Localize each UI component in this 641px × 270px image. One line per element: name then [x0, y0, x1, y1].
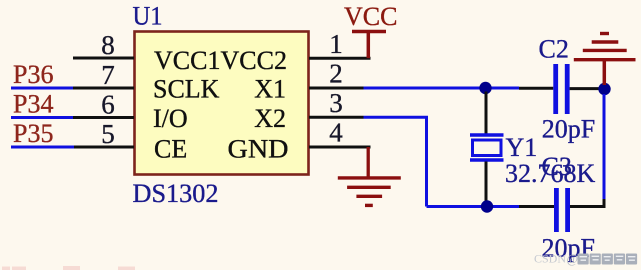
svg-text:X2: X2 — [254, 104, 286, 133]
wire net P35 — [11, 146, 74, 149]
svg-text:CE: CE — [154, 135, 187, 164]
capacitor C2 right plate — [565, 64, 570, 114]
svg-text:2: 2 — [329, 59, 343, 89]
svg-text:C3: C3 — [542, 152, 572, 181]
svg-text:8: 8 — [101, 30, 115, 60]
VCC power bar — [352, 30, 386, 33]
svg-text:5: 5 — [101, 119, 115, 149]
node junction X1/Y1/C2 — [479, 82, 491, 94]
pin 1 stub — [309, 57, 371, 60]
pin 4 stub — [309, 146, 371, 149]
crystal Y1 bottom stub — [485, 162, 488, 204]
watermark handle blobs — [578, 254, 638, 265]
inverted ground symbol top right — [574, 34, 636, 60]
svg-text:4: 4 — [329, 118, 343, 148]
svg-text:7: 7 — [101, 60, 115, 90]
svg-text:20pF: 20pF — [542, 114, 595, 143]
chip U1 body — [135, 32, 309, 175]
node junction C2/ground — [598, 83, 610, 95]
pin 7 stub — [73, 87, 134, 90]
pin 8 stub — [73, 57, 134, 60]
svg-text:CSDN: CSDN — [534, 251, 566, 265]
svg-text:U1: U1 — [133, 2, 163, 31]
svg-text:3: 3 — [329, 88, 343, 118]
wire from C2 junction down to C3 — [603, 94, 606, 200]
svg-text:P36: P36 — [13, 60, 53, 89]
leftover red text cut at bottom left — [2, 266, 135, 270]
svg-text:P34: P34 — [13, 90, 53, 119]
crystal Y1 top stub — [485, 92, 488, 136]
svg-text:X1: X1 — [254, 75, 286, 104]
svg-text:@: @ — [567, 252, 579, 266]
node junction Y1 bottom — [481, 200, 493, 212]
crystal Y1 top plate — [470, 133, 504, 136]
svg-text:DS1302: DS1302 — [133, 179, 219, 208]
capacitor C3 left plate — [554, 188, 559, 232]
svg-text:I/O: I/O — [153, 104, 188, 133]
svg-text:C2: C2 — [539, 35, 569, 64]
svg-text:VCC2: VCC2 — [221, 46, 287, 75]
svg-text:1: 1 — [329, 29, 343, 59]
svg-text:VCC1: VCC1 — [154, 46, 220, 75]
GND stem wire — [367, 147, 370, 178]
wire X1 net to junction — [364, 87, 485, 90]
wire X2 bottom run — [427, 205, 520, 208]
capacitor C3 left stub — [519, 205, 554, 208]
crystal Y1 bottom plate — [470, 158, 504, 161]
wire net P36 — [11, 87, 73, 90]
wire X2 net vertical — [425, 117, 428, 206]
capacitor C3 right stub L — [570, 199, 604, 207]
capacitor C2 right stub — [570, 87, 600, 90]
pin 2 stub — [309, 87, 364, 90]
capacitor C2 left stub — [519, 87, 553, 90]
wire junction to C2 — [484, 87, 519, 90]
svg-text:VCC: VCC — [344, 2, 397, 31]
pin 3 stub — [309, 116, 364, 119]
svg-text:GND: GND — [228, 135, 289, 164]
VCC stem wire — [367, 32, 371, 59]
capacitor C3 right plate — [565, 188, 570, 232]
svg-text:P35: P35 — [13, 119, 53, 148]
svg-text:6: 6 — [101, 90, 115, 120]
power ground stem top right — [603, 60, 607, 85]
pin 6 stub — [73, 116, 134, 119]
wire X2 net horizontal — [364, 116, 429, 119]
svg-text:Y1: Y1 — [506, 133, 538, 162]
svg-text:SCLK: SCLK — [153, 75, 220, 104]
capacitor C2 left plate — [553, 64, 558, 114]
ground symbol at pin 4 — [338, 178, 401, 206]
pin 5 stub — [74, 146, 134, 149]
crystal Y1 body — [473, 140, 502, 156]
wire net P34 — [11, 116, 73, 119]
